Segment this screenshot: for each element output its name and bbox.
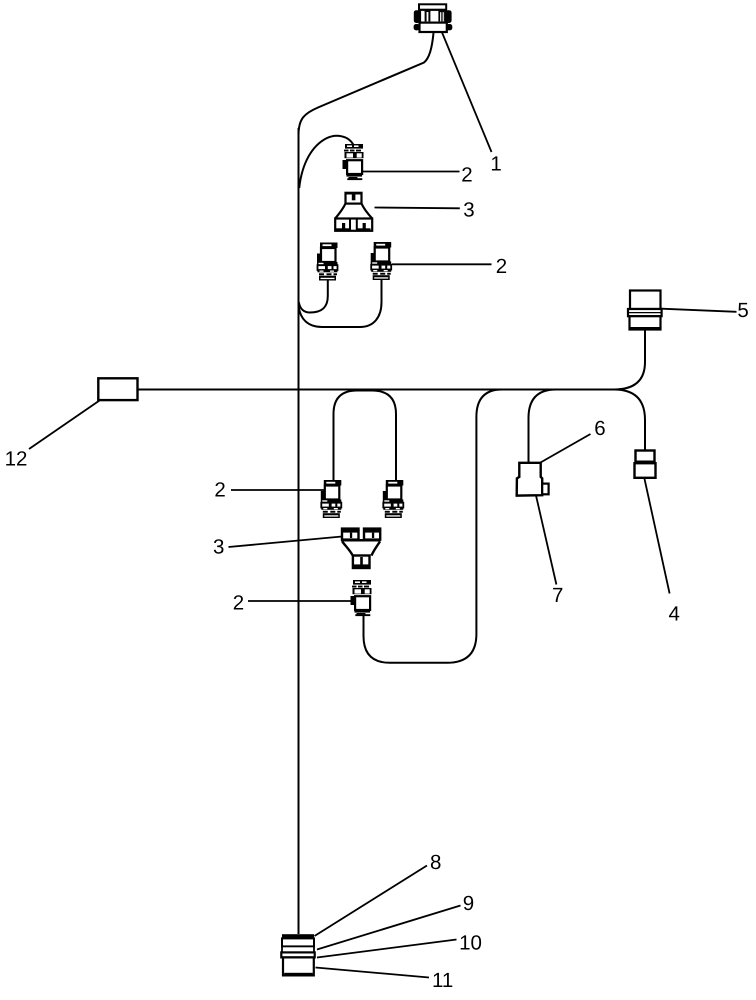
svg-text:2: 2: [233, 592, 244, 615]
svg-text:11: 11: [432, 969, 453, 992]
svg-text:2: 2: [461, 163, 472, 186]
svg-text:2: 2: [496, 255, 507, 278]
svg-text:4: 4: [669, 603, 680, 626]
svg-text:3: 3: [463, 199, 474, 222]
svg-text:3: 3: [213, 536, 224, 559]
svg-text:7: 7: [552, 584, 563, 607]
svg-text:1: 1: [490, 152, 501, 175]
svg-text:10: 10: [459, 932, 482, 955]
svg-text:8: 8: [430, 851, 441, 874]
svg-text:2: 2: [214, 478, 225, 501]
svg-text:5: 5: [737, 299, 748, 322]
svg-text:12: 12: [5, 448, 28, 471]
svg-text:6: 6: [594, 417, 605, 440]
svg-text:9: 9: [463, 892, 474, 915]
